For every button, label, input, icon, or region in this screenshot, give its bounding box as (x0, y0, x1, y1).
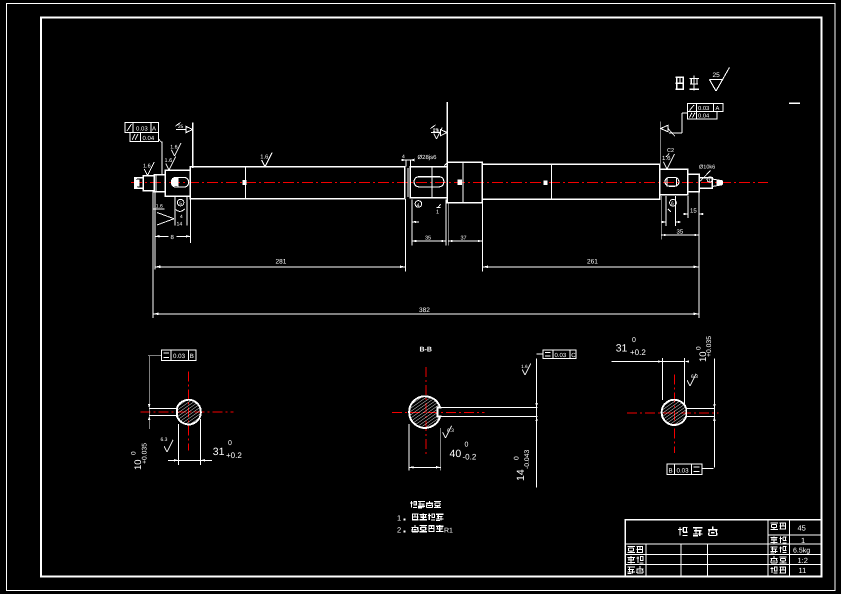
svg-text:1: 1 (801, 536, 805, 545)
feature frame left parallelism (130, 133, 159, 142)
svg-text:0.04: 0.04 (698, 113, 710, 120)
drawing number row (771, 567, 778, 573)
roughness S9 (663, 162, 667, 169)
center dot S5 (243, 180, 247, 185)
section A keyway flat extension lines (149, 408, 177, 410)
section B dim 40 (408, 424, 410, 471)
svg-text:4: 4 (180, 214, 183, 220)
scale row (771, 556, 778, 563)
svg-text:B-B: B-B (420, 347, 432, 354)
svg-text:11: 11 (799, 566, 807, 575)
svg-text:261: 261 (587, 259, 598, 266)
section B centerline vertical (425, 367, 427, 454)
section A frame leader (148, 355, 161, 357)
svg-text:281: 281 (276, 259, 287, 266)
dimension total length (153, 313, 699, 315)
leader right frames (682, 112, 688, 114)
svg-text:6.3: 6.3 (447, 428, 454, 434)
svg-text:4: 4 (402, 154, 405, 160)
shaft section S3 (154, 175, 165, 192)
roughness above cut line B (434, 133, 437, 139)
quantity row (771, 536, 778, 543)
svg-text:A: A (152, 126, 156, 133)
title block left columns (645, 544, 647, 576)
roughness S2 (144, 169, 147, 176)
svg-text:1.6: 1.6 (165, 158, 173, 164)
section B hatched circle (409, 396, 440, 428)
svg-text:35: 35 (425, 236, 431, 242)
title block outline (625, 520, 821, 577)
section C feature frame (667, 464, 702, 475)
svg-text:0.03: 0.03 (555, 352, 567, 359)
svg-text:6.3: 6.3 (691, 374, 698, 380)
section A roughness (164, 446, 167, 452)
circled mark below S6 (415, 201, 422, 208)
section B upper roughness (522, 369, 525, 375)
small arrow at groove ext (412, 221, 419, 223)
svg-text:+0.035: +0.035 (706, 336, 713, 357)
keyway slot middle (414, 177, 444, 187)
svg-text:-0.2: -0.2 (463, 453, 477, 462)
svg-text:0: 0 (514, 456, 521, 460)
svg-text:1:2: 1:2 (798, 556, 808, 565)
svg-text:1.6: 1.6 (260, 153, 268, 160)
svg-text:6.3: 6.3 (161, 437, 168, 443)
relief groove (404, 168, 406, 198)
shaft keyway journal S4 (165, 170, 190, 196)
svg-text:25: 25 (178, 124, 184, 130)
svg-text:R1: R1 (444, 527, 453, 534)
dimension 35 right (661, 234, 699, 236)
roughness upper left (171, 150, 174, 156)
shaft long body S8 (482, 164, 659, 199)
svg-text:+0.2: +0.2 (226, 451, 242, 460)
keyway slot right (665, 177, 679, 186)
svg-text:1.6: 1.6 (433, 128, 440, 133)
roughness S4 (166, 164, 169, 171)
svg-text:-0.043: -0.043 (524, 450, 531, 469)
roughness S5 (262, 160, 265, 167)
svg-text:0.04: 0.04 (143, 135, 155, 142)
section C roughness (687, 380, 690, 386)
svg-text:31: 31 (616, 343, 628, 355)
svg-text:0.03: 0.03 (173, 353, 186, 360)
dimension 15 (683, 213, 688, 215)
junction line S5 (245, 167, 247, 199)
section A centerline horizontal (140, 411, 233, 413)
section B feature frame (543, 350, 576, 359)
svg-text:C2: C2 (667, 148, 674, 154)
roughness symbol 25 general (710, 80, 717, 91)
svg-text:35: 35 (677, 229, 684, 236)
svg-text:382: 382 (419, 307, 430, 314)
section B frame leader (537, 353, 543, 355)
cut arrow B (431, 132, 441, 134)
svg-text:37: 37 (461, 236, 467, 242)
cut line through S6 (431, 167, 433, 198)
title text chi lun zhou (678, 527, 688, 536)
svg-text:0: 0 (696, 346, 703, 350)
section A width dim leader (148, 356, 150, 429)
svg-text:0: 0 (131, 451, 138, 455)
section cut line B (446, 102, 448, 162)
svg-text:1: 1 (436, 210, 439, 216)
svg-text:0.03: 0.03 (136, 126, 148, 133)
section C centerline vertical (673, 374, 675, 453)
dimension 37 section S7 (448, 240, 482, 242)
shaft long body S5 (190, 167, 405, 199)
section B centerline horizontal (392, 412, 484, 414)
svg-text:5: 5 (179, 201, 182, 207)
svg-text:1.6: 1.6 (143, 164, 151, 170)
junction line S8 (550, 164, 552, 199)
shaft right stub S11 (699, 178, 712, 189)
center dot S8 (544, 181, 548, 186)
chamfer S6-S7 (444, 162, 447, 166)
section A dim 31 (178, 424, 180, 465)
svg-text:1.6: 1.6 (521, 364, 528, 369)
datum arrow on extension line (661, 125, 668, 132)
svg-text:4: 4 (417, 202, 420, 208)
extension lines below shaft (152, 192, 154, 319)
svg-text:1: 1 (397, 514, 401, 523)
feature frame right parallelism (688, 112, 717, 119)
svg-text:0: 0 (228, 440, 232, 447)
section C width dim line (713, 359, 715, 468)
material row (771, 523, 778, 529)
arrow at right stub end (717, 180, 723, 186)
svg-text:A: A (716, 106, 720, 112)
section A feature frame (161, 350, 195, 361)
svg-text:31: 31 (213, 446, 225, 458)
tick mark top right (789, 102, 800, 104)
section C keyway flat extension lines (686, 408, 714, 410)
section B keyway width dim 14 (536, 359, 538, 488)
svg-text:0.03: 0.03 (698, 105, 709, 112)
dimension 281 (155, 266, 406, 268)
svg-text:Ø10k6: Ø10k6 (699, 164, 715, 170)
note title ji shu yao qiu (410, 501, 417, 507)
section C dim 31 (661, 358, 663, 400)
designer rows labels (628, 546, 635, 552)
svg-text:0: 0 (465, 442, 469, 449)
svg-text:B: B (190, 353, 194, 360)
section A centerline vertical (188, 371, 190, 450)
svg-text:B: B (669, 467, 673, 474)
svg-text:+0.035: +0.035 (142, 443, 149, 464)
title block right rows (768, 534, 821, 536)
svg-text:6: 6 (671, 201, 674, 207)
shaft left stub S1 (135, 178, 144, 189)
svg-text:45: 45 (798, 524, 806, 533)
feature frame left runout (125, 123, 158, 133)
dimension 35 keyway S6 (412, 240, 446, 242)
small circle mark near stub (707, 177, 712, 182)
svg-text:6.5kg: 6.5kg (793, 547, 810, 555)
svg-text:40: 40 (450, 448, 462, 460)
section cut line A (192, 123, 194, 168)
svg-text:2: 2 (397, 526, 401, 535)
keyway slot left (172, 178, 189, 188)
keyway width circle 5 (177, 199, 184, 206)
centerline main shaft (131, 182, 768, 184)
svg-text:C: C (571, 352, 576, 359)
svg-text:1.6: 1.6 (170, 144, 177, 150)
section C hatched circle with right flat (662, 400, 687, 425)
weight row (771, 547, 778, 553)
shaft keyway journal S9 (660, 169, 688, 195)
shaft section S10 (688, 174, 699, 191)
dimension 8 keyway left (155, 235, 169, 237)
section C centerline horizontal (627, 412, 719, 414)
section C frame leader (702, 467, 714, 469)
shaft large section S7 (447, 162, 482, 202)
svg-text:14: 14 (515, 469, 527, 481)
svg-text:Ø28js6: Ø28js6 (418, 154, 438, 161)
section B keyway notch (437, 407, 537, 409)
svg-text:+0.2: +0.2 (630, 348, 646, 357)
dimension 16 keyway right (661, 221, 666, 223)
groove width dim 4 (401, 159, 413, 161)
title block left rows (625, 543, 768, 545)
keyway slot extension lines below (174, 196, 176, 226)
shaft section S2 (143, 176, 154, 191)
leader left frames (161, 141, 163, 174)
title block verticals (767, 520, 769, 577)
cut arrow A (176, 129, 187, 131)
dimension 261 (483, 266, 700, 268)
center dot S7 (458, 180, 463, 186)
svg-text:25: 25 (713, 72, 721, 79)
svg-text:14: 14 (177, 222, 183, 228)
surface note qi yu (676, 77, 685, 89)
junction line S7 (462, 162, 464, 202)
section B roughness (443, 432, 446, 438)
svg-text:0.03: 0.03 (677, 467, 690, 474)
feature frame right runout (688, 104, 724, 112)
shaft keyway journal S6 (410, 167, 447, 198)
svg-text:15: 15 (690, 208, 697, 215)
svg-text:0: 0 (632, 337, 636, 344)
